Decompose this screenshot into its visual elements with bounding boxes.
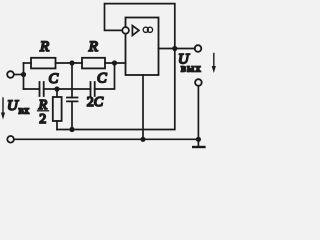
svg-text:C: C [49,71,59,87]
node output junction [172,46,177,51]
output terminal (top right) [195,45,202,52]
svg-text:R: R [39,39,49,55]
node rail-ground junction [196,137,201,142]
wire junction to C2 [57,88,91,90]
wire twin-T common node to output (bootstrap) [57,49,175,130]
wire op-amp ground pin [142,75,144,139]
svg-text:вх: вх [19,106,30,117]
output bottom terminal [195,79,202,86]
svg-text:2C: 2C [87,95,104,110]
svg-text:R: R [88,39,98,55]
wire C path left [24,88,40,90]
node B twin-T output junction [112,60,117,65]
op-amp triangle symbol [132,26,139,36]
capacitor 2C vertical [71,63,73,98]
capacitor C2 [91,82,95,96]
wire R1 to R2 [56,62,83,64]
op-amp U1 box [126,18,159,76]
ground bar [192,146,206,148]
arrow output voltage [213,54,215,68]
input bottom terminal [7,136,14,143]
svg-text:C: C [97,71,107,87]
svg-text:2: 2 [39,112,46,127]
wire C1 to junction [44,88,57,90]
resistor R1 [31,58,56,69]
capacitor C1 [40,82,44,96]
resistor R/2 vertical [56,89,58,97]
node input junction [21,72,26,77]
resistor R2 [82,58,105,69]
svg-text:U: U [7,98,19,114]
node 2C bottom junction [69,127,74,132]
arrow input voltage [2,98,4,114]
bottom rail wire [14,138,198,140]
op-amp gain label infinity [143,27,148,32]
wire C2 to node B [95,63,115,89]
node R1-R2 junction [69,60,74,65]
wire output bottom terminal to ground [197,86,199,146]
node ground pin to rail [140,137,145,142]
wire input vertical [23,63,25,89]
node C1-C2 junction [54,86,59,91]
input terminal (top left) [7,71,14,78]
wire R2 to op-amp input [105,62,126,64]
inverting input circle [122,27,129,34]
wire feedback from output to inverting input [105,4,175,49]
wire op-amp output [159,48,195,50]
wire input horizontal [14,74,24,76]
svg-text:вых: вых [181,64,202,75]
wire to R1 [24,62,32,64]
